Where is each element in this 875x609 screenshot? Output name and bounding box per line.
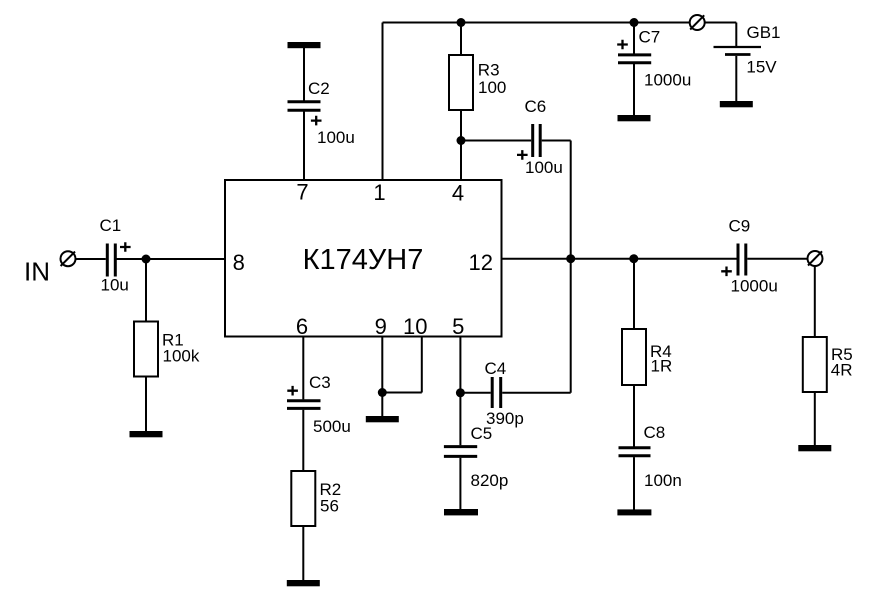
svg-text:C2: C2 xyxy=(308,79,330,98)
svg-text:15V: 15V xyxy=(746,57,777,76)
svg-text:7: 7 xyxy=(296,180,308,205)
svg-text:6: 6 xyxy=(296,314,308,339)
svg-text:1: 1 xyxy=(373,180,385,205)
svg-text:C9: C9 xyxy=(729,217,751,236)
svg-text:К174УН7: К174УН7 xyxy=(303,244,424,276)
svg-text:10: 10 xyxy=(403,314,427,339)
svg-text:1000u: 1000u xyxy=(644,70,691,89)
svg-text:IN: IN xyxy=(24,257,50,287)
svg-text:820p: 820p xyxy=(471,471,509,490)
svg-text:1R: 1R xyxy=(651,357,673,376)
svg-text:500u: 500u xyxy=(313,417,351,436)
svg-text:100n: 100n xyxy=(644,471,682,490)
svg-text:9: 9 xyxy=(375,314,387,339)
svg-text:5: 5 xyxy=(452,314,464,339)
svg-text:4R: 4R xyxy=(831,361,853,380)
svg-text:C7: C7 xyxy=(639,27,661,46)
svg-text:100u: 100u xyxy=(525,158,563,177)
svg-text:56: 56 xyxy=(320,497,339,516)
svg-text:GB1: GB1 xyxy=(747,23,781,42)
svg-text:C8: C8 xyxy=(644,423,666,442)
svg-text:4: 4 xyxy=(452,180,464,205)
svg-text:100: 100 xyxy=(478,78,506,97)
svg-text:C3: C3 xyxy=(309,373,331,392)
svg-text:R3: R3 xyxy=(478,61,500,80)
svg-text:C1: C1 xyxy=(100,216,122,235)
svg-text:100u: 100u xyxy=(317,128,355,147)
svg-text:10u: 10u xyxy=(101,276,129,295)
svg-text:100k: 100k xyxy=(163,347,200,366)
svg-text:1000u: 1000u xyxy=(731,277,778,296)
svg-text:8: 8 xyxy=(233,250,245,275)
svg-text:C4: C4 xyxy=(485,359,507,378)
svg-text:C5: C5 xyxy=(471,424,493,443)
svg-text:C6: C6 xyxy=(525,97,547,116)
svg-text:12: 12 xyxy=(469,250,493,275)
